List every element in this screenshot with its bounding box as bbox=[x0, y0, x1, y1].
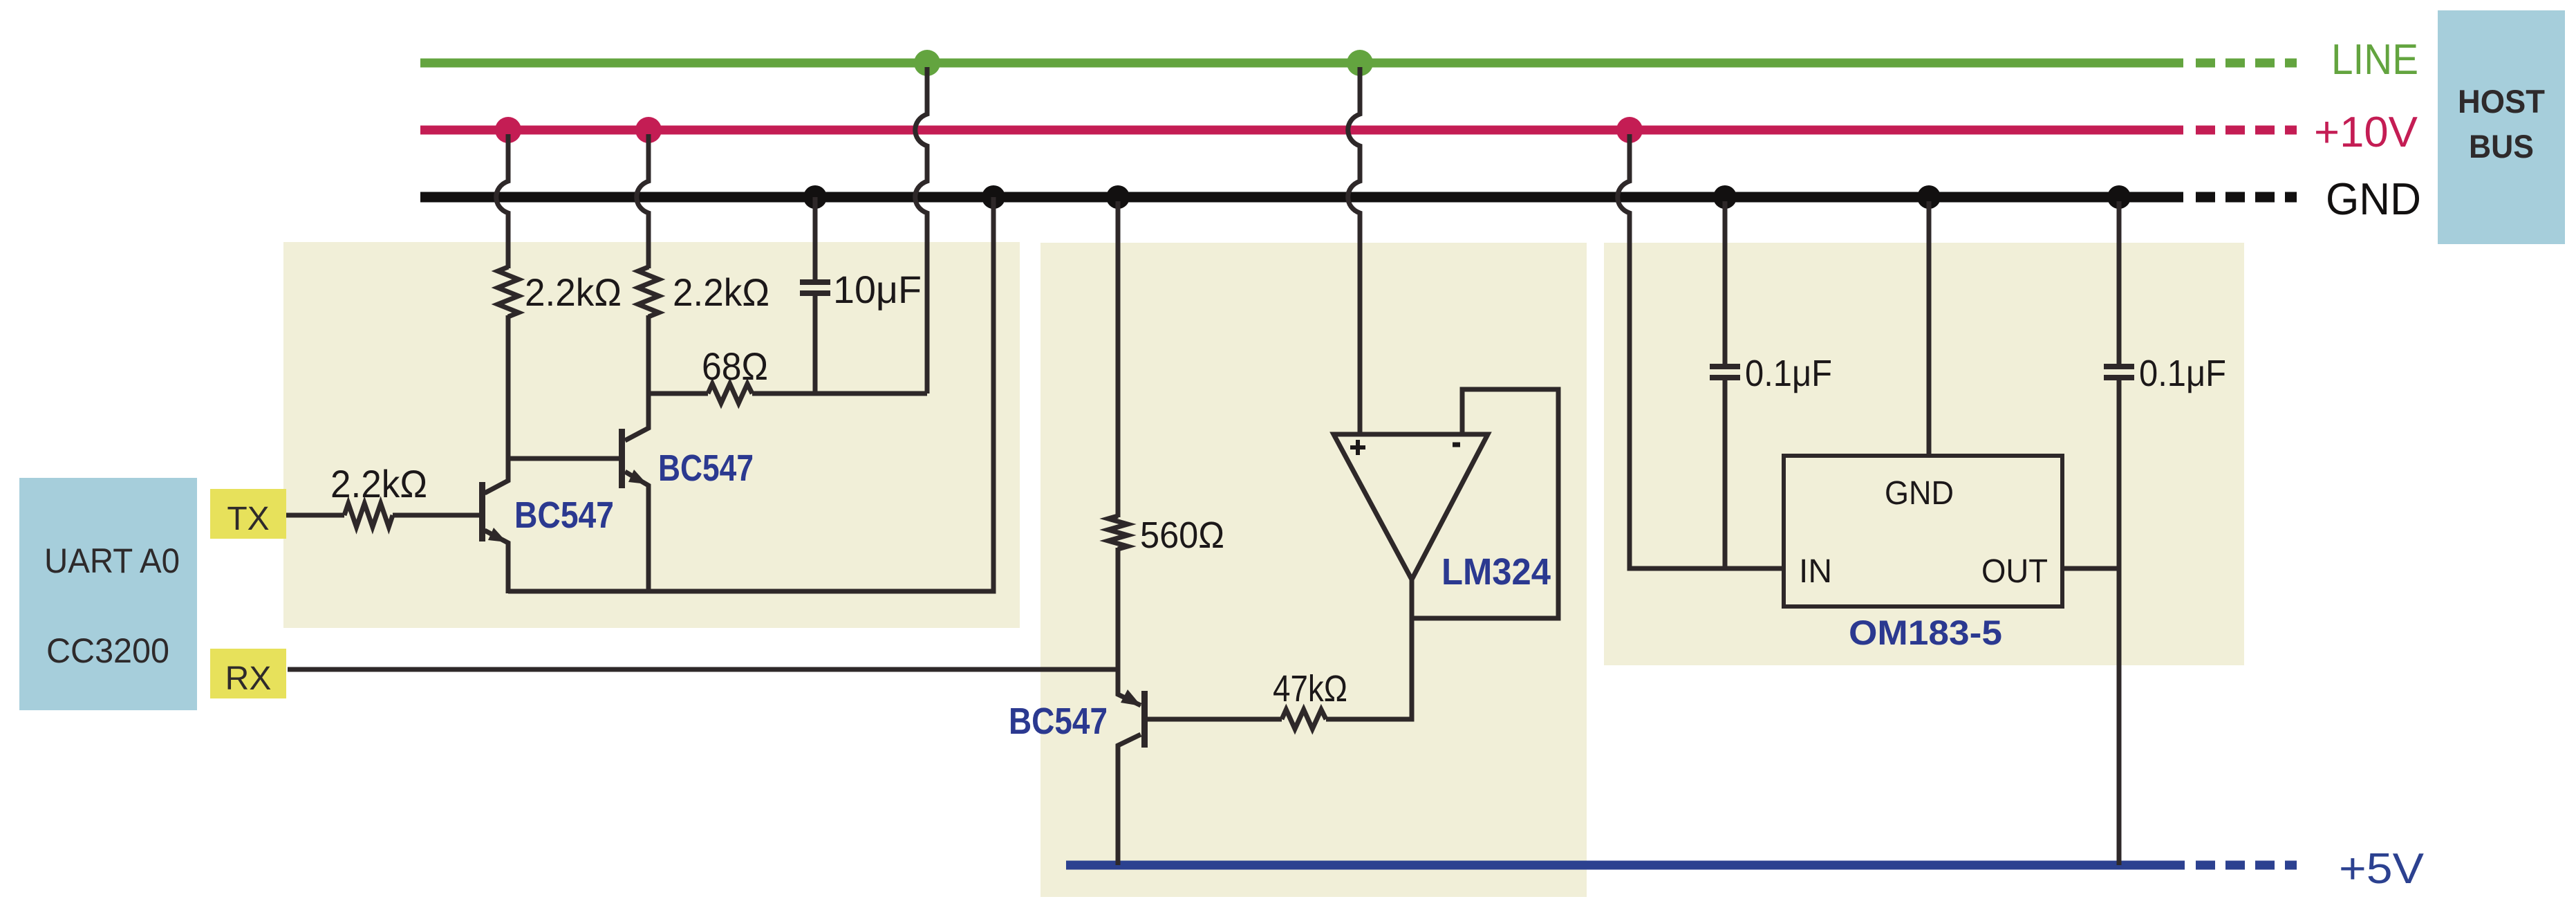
wire Q2 emitter down to emitter rail bbox=[625, 472, 648, 593]
svg-text:LINE: LINE bbox=[2331, 36, 2418, 84]
wire 10uF cap bottom to 68 ohm line bbox=[813, 293, 818, 393]
svg-text:2.2kΩ: 2.2kΩ bbox=[525, 270, 622, 314]
wire R1 bottom to Q1 collector junction bbox=[485, 315, 508, 493]
RX pad bbox=[210, 649, 286, 698]
wire Q3 base to 47k to op-amp output bbox=[1147, 580, 1412, 719]
wire Q1 base from TX bbox=[286, 513, 480, 518]
resistor R1 2.2k (vertical) bbox=[498, 267, 519, 317]
wire +10V drop to regulator IN (hop over GND) bbox=[1618, 134, 1784, 568]
resistor R3 2.2k (TX base, horizontal) bbox=[344, 503, 393, 527]
svg-text:10μF: 10μF bbox=[833, 268, 922, 311]
svg-text:68Ω: 68Ω bbox=[702, 344, 768, 388]
svg-text:GND: GND bbox=[1885, 475, 1954, 512]
GND junction dot (10uF cap) bbox=[803, 185, 827, 209]
svg-text:OM183-5: OM183-5 bbox=[1849, 613, 2002, 652]
svg-text:2.2kΩ: 2.2kΩ bbox=[673, 270, 769, 314]
GND junction dot (OM183-5 GND pin) bbox=[1917, 185, 1941, 209]
resistor R4 68 ohm (horizontal) bbox=[708, 384, 752, 403]
svg-text:BUS: BUS bbox=[2469, 128, 2534, 165]
+5V bus (blue) bbox=[1066, 861, 2297, 870]
+10V bus (crimson) bbox=[420, 126, 2297, 135]
wire 10uF cap top from GND bbox=[813, 197, 818, 282]
UART A0 / CC3200 box bbox=[19, 478, 197, 710]
svg-text:0.1μF: 0.1μF bbox=[2139, 353, 2226, 394]
regulator U2 OM183-5 box bbox=[1784, 456, 2062, 606]
svg-text:+5V: +5V bbox=[2339, 845, 2425, 893]
wire 68 ohm node line bbox=[648, 391, 927, 396]
wire 0.1uF cap 2 bottom to +5V bus bbox=[2117, 378, 2122, 865]
RX comparator section background bbox=[1040, 243, 1587, 897]
wire R2 bottom to Q2 collector bbox=[625, 315, 648, 441]
svg-text:+10V: +10V bbox=[2314, 109, 2418, 156]
wire LINE drop to op-amp + input (hops over +10V and GND) bbox=[1348, 67, 1360, 434]
GND junction dot (emitter return) bbox=[982, 185, 1005, 209]
wire OUT pin to +5V riser bbox=[2062, 566, 2119, 571]
capacitor C1 10uF bbox=[800, 282, 830, 293]
TX driver section background bbox=[283, 242, 1020, 628]
wire emitter rail to GND riser bbox=[508, 197, 993, 591]
regulator section background bbox=[1604, 243, 2244, 665]
wire +10V drop to R2 (hop over GND) bbox=[637, 134, 648, 268]
wire 0.1uF cap 1 bottom to IN node bbox=[1723, 378, 1728, 568]
op-amp U1 LM324 bbox=[1334, 434, 1488, 580]
wire Q1 emitter down to emitter rail bbox=[485, 530, 508, 593]
LINE bus (green) bbox=[420, 59, 2297, 68]
transistor Q1 BC547 bbox=[479, 482, 507, 542]
resistor R6 47k (horizontal) bbox=[1282, 710, 1326, 729]
transistor Q3 BC547 bbox=[1121, 689, 1148, 748]
wire 0.1uF cap 2 top from GND bbox=[2117, 201, 2122, 367]
svg-text:0.1μF: 0.1μF bbox=[1745, 353, 1832, 394]
+10V junction dot (node at x=938) bbox=[635, 117, 662, 143]
wire Q3 collector to +5V bbox=[1118, 734, 1141, 865]
wire +10V drop to R1 (hop over GND) bbox=[496, 134, 508, 268]
svg-text:IN: IN bbox=[1799, 553, 1832, 590]
svg-text:LM324: LM324 bbox=[1441, 551, 1551, 593]
resistor R2 2.2k (vertical) bbox=[638, 267, 659, 317]
svg-text:UART A0: UART A0 bbox=[44, 541, 180, 580]
svg-text:TX: TX bbox=[227, 501, 269, 537]
transistor Q2 BC547 bbox=[619, 429, 647, 488]
svg-text:BC547: BC547 bbox=[1009, 701, 1108, 742]
wire 0.1uF cap 1 top from GND bbox=[1723, 201, 1728, 367]
svg-text:HOST: HOST bbox=[2458, 83, 2545, 120]
wire GND drop to 560 ohm bbox=[1116, 201, 1121, 517]
svg-text:OUT: OUT bbox=[1981, 553, 2048, 590]
svg-text:47kΩ: 47kΩ bbox=[1273, 668, 1347, 710]
TX pad bbox=[210, 489, 286, 539]
GND junction dot (0.1uF cap 2) bbox=[2107, 185, 2131, 209]
GND junction dot (560 ohm) bbox=[1106, 185, 1130, 209]
+10V junction dot (node at x=2357) bbox=[1616, 117, 1643, 143]
svg-text:BC547: BC547 bbox=[658, 447, 754, 489]
wire RX line bbox=[288, 667, 1118, 672]
svg-text:RX: RX bbox=[225, 660, 272, 697]
svg-text:CC3200: CC3200 bbox=[46, 631, 169, 670]
svg-text:560Ω: 560Ω bbox=[1140, 515, 1224, 556]
svg-text:BC547: BC547 bbox=[514, 494, 614, 536]
wire 560 ohm bottom to Q3 emitter bbox=[1118, 548, 1141, 705]
GND junction dot (0.1uF cap 1) bbox=[1713, 185, 1737, 209]
wire OM183-5 GND pin riser bbox=[1927, 201, 1932, 456]
LINE junction dot (node at x=1341) bbox=[914, 50, 940, 76]
resistor R5 560 ohm (vertical) bbox=[1108, 516, 1128, 549]
wire op-amp feedback loop (output to inverting input) bbox=[1412, 389, 1558, 618]
svg-text:GND: GND bbox=[2326, 174, 2421, 224]
capacitor C3 0.1uF bbox=[2104, 367, 2134, 378]
HOST BUS box bbox=[2438, 10, 2565, 244]
capacitor C2 0.1uF bbox=[1710, 367, 1740, 378]
svg-text:2.2kΩ: 2.2kΩ bbox=[330, 462, 427, 506]
wire node R1/Q2-base to Q2 base bbox=[508, 456, 620, 461]
+10V junction dot (node at x=735) bbox=[495, 117, 521, 143]
wire LINE drop to 68 ohm line (hops over +10V and GND) bbox=[915, 67, 927, 393]
GND bus (black) bbox=[420, 192, 2297, 203]
LINE junction dot (node at x=1967) bbox=[1347, 50, 1373, 76]
